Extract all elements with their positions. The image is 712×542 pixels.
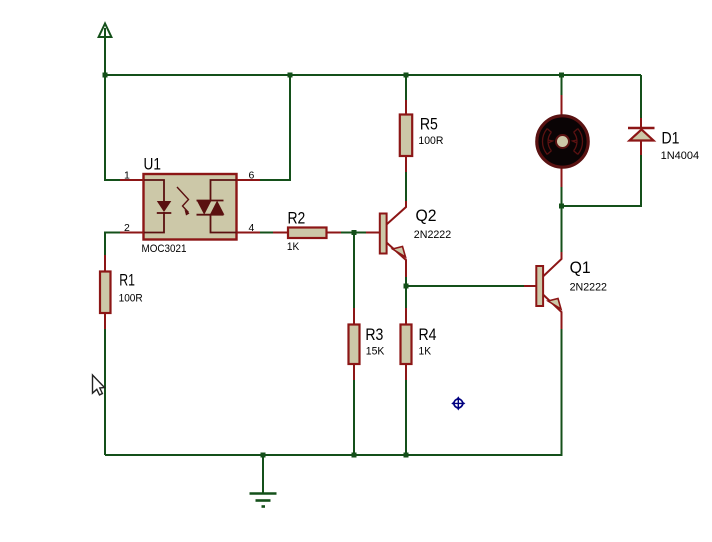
svg-text:Q1: Q1: [570, 259, 591, 277]
svg-text:R3: R3: [365, 326, 383, 344]
svg-text:Q2: Q2: [416, 207, 437, 225]
svg-text:100R: 100R: [418, 135, 443, 147]
svg-text:R4: R4: [419, 326, 437, 344]
svg-text:15K: 15K: [366, 345, 385, 357]
svg-text:4: 4: [249, 222, 255, 234]
svg-text:U1: U1: [144, 156, 161, 174]
svg-text:1: 1: [124, 170, 130, 182]
svg-text:D1: D1: [662, 130, 680, 148]
svg-text:R5: R5: [420, 116, 438, 134]
svg-text:2: 2: [124, 222, 130, 234]
svg-text:R1: R1: [119, 271, 135, 289]
svg-text:2N2222: 2N2222: [570, 281, 607, 293]
svg-text:1N4004: 1N4004: [661, 150, 700, 162]
svg-text:2N2222: 2N2222: [414, 229, 451, 241]
svg-text:100R: 100R: [119, 292, 143, 304]
svg-text:1K: 1K: [419, 345, 432, 357]
svg-text:6: 6: [249, 170, 255, 182]
svg-text:1K: 1K: [287, 241, 300, 253]
svg-text:R2: R2: [288, 210, 306, 228]
svg-text:MOC3021: MOC3021: [142, 243, 187, 255]
